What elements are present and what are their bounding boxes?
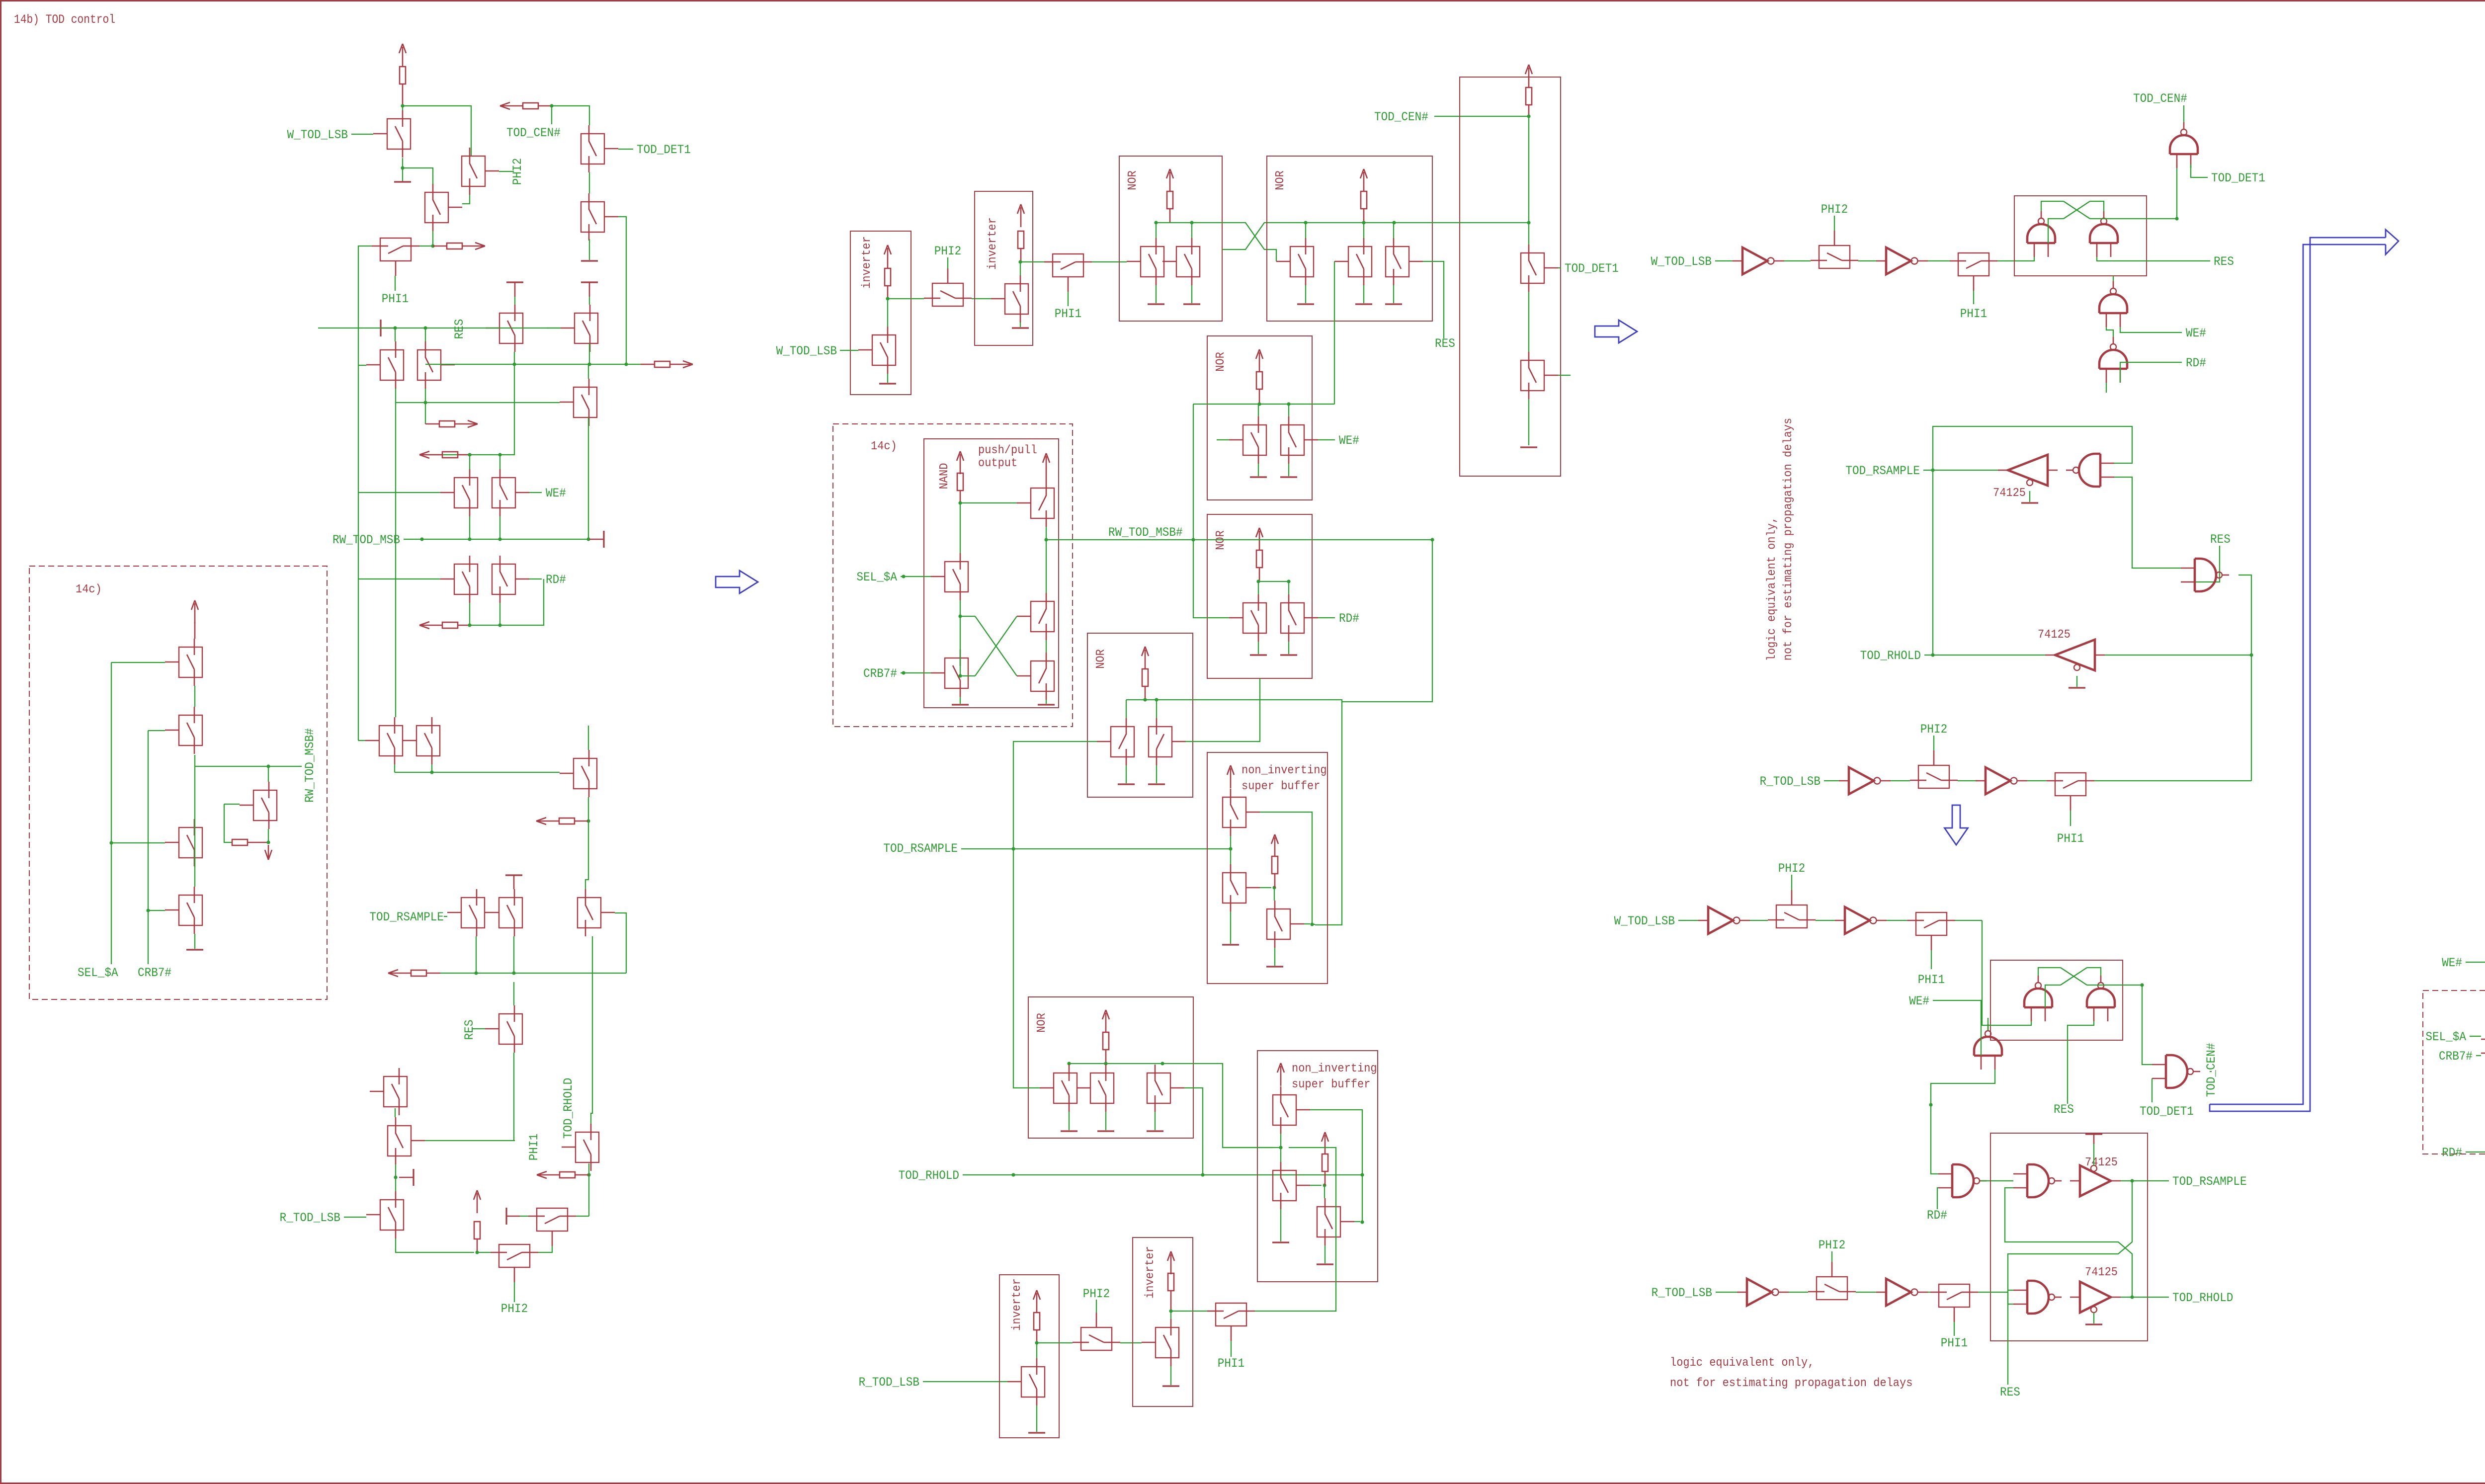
wire bbox=[499, 455, 500, 469]
wire bbox=[1954, 1322, 1955, 1336]
bus y=733 bbox=[425, 364, 641, 365]
long bus bbox=[396, 402, 560, 403]
svg-text:PHI2: PHI2 bbox=[1920, 722, 1947, 737]
ground bbox=[1258, 642, 1259, 654]
ground rotated left bbox=[505, 1208, 507, 1225]
svg-text:RW_TOD_MSB: RW_TOD_MSB bbox=[332, 533, 400, 547]
NAND gate RD# bbox=[1952, 1164, 1974, 1197]
svg-text:inverter: inverter bbox=[1010, 1278, 1024, 1331]
wire bbox=[1858, 260, 1876, 261]
svg-text:WE#: WE# bbox=[546, 486, 566, 500]
wire bbox=[1715, 260, 1733, 261]
wire bbox=[194, 686, 195, 707]
wire bbox=[960, 491, 961, 503]
transistor Q29 bbox=[179, 647, 202, 677]
wire Q16 gate bbox=[358, 579, 359, 741]
wire bbox=[1558, 375, 1571, 376]
resistor bbox=[1103, 1032, 1109, 1050]
wire bbox=[972, 298, 991, 299]
wire SEL bus bbox=[111, 662, 112, 964]
wire bbox=[1274, 874, 1276, 888]
svg-text:PHI2: PHI2 bbox=[510, 158, 525, 185]
buffer 74125 #2 bbox=[2055, 640, 2095, 670]
wire Q14 gate bbox=[358, 493, 440, 579]
power arrow bbox=[1259, 352, 1260, 372]
off-page arrow bbox=[419, 622, 429, 625]
wire bbox=[1069, 1064, 1070, 1065]
wire bbox=[1931, 1070, 1995, 1174]
wire bbox=[513, 982, 514, 1005]
ground bbox=[1155, 1112, 1156, 1130]
power arrow pushpull bbox=[1046, 456, 1047, 476]
blue arrow panel1 to panel2 bbox=[716, 571, 758, 593]
node bbox=[1323, 1183, 1326, 1187]
down arrow off-page bbox=[268, 845, 269, 860]
wire bbox=[1789, 1292, 1808, 1293]
transistor Q71 R_TOD_LSB bbox=[1021, 1367, 1045, 1397]
wire bbox=[1184, 1088, 1203, 1175]
wire RD# bbox=[2120, 362, 2182, 383]
wire bbox=[2121, 1297, 2169, 1298]
wire bbox=[947, 257, 948, 268]
latch box read bbox=[1990, 1133, 2148, 1341]
off-page arrow bbox=[536, 818, 546, 821]
node bbox=[423, 401, 427, 404]
svg-text:R_TOD_LSB: R_TOD_LSB bbox=[1760, 774, 1821, 789]
transistor Q44 bbox=[1141, 247, 1164, 277]
transistor Q68 bbox=[1273, 1095, 1296, 1125]
wire bbox=[1304, 923, 1310, 924]
power arrow bbox=[477, 1193, 478, 1213]
wire cross bbox=[960, 616, 975, 617]
transistor Q70 bbox=[1317, 1207, 1340, 1237]
transistor Q17 bbox=[416, 726, 440, 756]
wire bbox=[395, 276, 396, 291]
node bbox=[2175, 217, 2178, 220]
node bbox=[2130, 1179, 2134, 1182]
buffer 74125 #1 bbox=[2008, 455, 2048, 486]
inverter block 1 bbox=[850, 231, 911, 395]
wire bbox=[2087, 968, 2101, 976]
svg-text:PHI1: PHI1 bbox=[1055, 307, 1081, 321]
wire bbox=[923, 1381, 1007, 1382]
wire diag bbox=[2061, 968, 2087, 985]
wire bbox=[1258, 581, 1259, 594]
wire to TOD_CEN# gate bbox=[2176, 164, 2177, 219]
node bbox=[1527, 221, 1530, 224]
svg-text:TOD_DET1: TOD_DET1 bbox=[2140, 1104, 2194, 1119]
resistor bbox=[474, 1222, 480, 1239]
node J2 bbox=[401, 166, 404, 169]
wire CRB bus bbox=[148, 731, 149, 964]
wire WE# bbox=[2120, 327, 2182, 332]
ground bbox=[402, 168, 403, 182]
inverter U7 bbox=[1747, 1279, 1772, 1306]
NOR block 4 bbox=[1207, 336, 1312, 500]
wire bbox=[396, 1238, 474, 1252]
inverter U1 bbox=[1742, 247, 1767, 274]
wire bbox=[1069, 1064, 1070, 1065]
ground bbox=[2093, 1313, 2094, 1323]
resistor bbox=[1526, 87, 1532, 105]
transistor Q1 bbox=[387, 119, 411, 149]
wire bbox=[419, 246, 433, 247]
dashed box 14c bbox=[833, 424, 1073, 727]
transistor Q32 bbox=[179, 827, 202, 858]
svg-text:logic equivalent only,: logic equivalent only, bbox=[1670, 1356, 1814, 1370]
wire bbox=[1305, 223, 1306, 238]
svg-text:WE#: WE# bbox=[1339, 433, 1359, 448]
wire bbox=[1288, 404, 1289, 416]
power arrow NAND bbox=[960, 454, 961, 474]
wire bbox=[588, 726, 589, 750]
node bbox=[1287, 402, 1290, 406]
svg-text:74125: 74125 bbox=[1993, 487, 2026, 500]
wire bbox=[1274, 888, 1275, 901]
power arrow bbox=[1363, 172, 1365, 192]
blue arrow panel2 to panel3 bbox=[1595, 320, 1637, 343]
node bbox=[468, 537, 471, 541]
node bbox=[1527, 114, 1530, 118]
NAND dome 1 bbox=[2024, 989, 2052, 1007]
wire bbox=[618, 149, 633, 150]
wire bbox=[1259, 568, 1260, 581]
ground bbox=[1036, 1405, 1037, 1432]
transistor Q7 RES bbox=[499, 313, 523, 343]
wire bbox=[588, 1163, 589, 1175]
ground bbox=[1191, 285, 1192, 303]
wire TOD_RHOLD bbox=[591, 947, 592, 1124]
wire bbox=[1558, 267, 1561, 268]
wire bbox=[529, 492, 542, 493]
transistor Q51 bbox=[1243, 425, 1266, 455]
svg-text:RD#: RD# bbox=[2442, 1146, 2462, 1160]
wire bbox=[551, 106, 552, 124]
transistor Q64 bbox=[1267, 909, 1290, 939]
wire bbox=[1171, 1311, 1216, 1312]
super buffer block 2 bbox=[1257, 1051, 1378, 1282]
node bbox=[1201, 1173, 1204, 1176]
wire bbox=[1997, 257, 2034, 261]
NAND gate RES bbox=[2195, 559, 2216, 591]
ground bbox=[2076, 676, 2077, 687]
wire bbox=[1834, 216, 1835, 231]
node bbox=[958, 501, 962, 504]
wire bbox=[1258, 404, 1259, 416]
wire bbox=[1937, 1188, 1938, 1209]
NOR block 6 bbox=[1087, 633, 1193, 797]
transistor pass PHI2 bbox=[1918, 765, 1949, 788]
svg-text:PHI1: PHI1 bbox=[1941, 1336, 1968, 1350]
wire Q8 gate bbox=[547, 328, 561, 329]
bus from NOR2 bbox=[1401, 222, 1529, 223]
node bbox=[468, 453, 471, 456]
ground bbox=[1046, 700, 1047, 704]
node bbox=[430, 770, 433, 774]
transistor Q3 bbox=[425, 192, 448, 223]
node J3 bbox=[431, 244, 434, 247]
wire bbox=[1191, 223, 1192, 238]
svg-text:74125: 74125 bbox=[2085, 1156, 2118, 1169]
wire bbox=[318, 328, 561, 329]
ground rotated bbox=[506, 281, 523, 283]
node bbox=[1257, 402, 1261, 406]
wire bbox=[403, 168, 433, 184]
wire bbox=[1096, 1300, 1097, 1313]
wire bbox=[588, 1175, 589, 1216]
svg-text:TOD_DET1: TOD_DET1 bbox=[1565, 261, 1619, 276]
svg-text:WE#: WE# bbox=[2186, 326, 2206, 340]
NAND gate bbox=[2079, 454, 2100, 487]
resistor R1 bbox=[400, 67, 406, 84]
wire bbox=[1716, 1292, 1737, 1293]
wire bbox=[1013, 742, 1097, 849]
node bbox=[1143, 698, 1147, 701]
ground rotated top bbox=[505, 874, 522, 876]
wire bbox=[268, 766, 302, 767]
wire bbox=[592, 936, 593, 947]
transistor Q47 bbox=[1348, 247, 1372, 277]
wire bbox=[1260, 887, 1271, 888]
node bbox=[902, 671, 905, 674]
wire SB1 out bbox=[1312, 924, 1315, 925]
svg-text:W_TOD_LSB: W_TOD_LSB bbox=[287, 128, 348, 142]
transistor Q11 bbox=[574, 387, 597, 417]
node bbox=[2130, 1295, 2134, 1299]
transistor Q61 bbox=[1149, 727, 1172, 757]
node bbox=[468, 623, 471, 627]
transistor Q15 RD# bbox=[492, 564, 515, 594]
node bbox=[586, 537, 590, 541]
wire bbox=[1528, 292, 1529, 352]
node bbox=[393, 326, 397, 330]
wire bbox=[960, 502, 1017, 503]
wire bbox=[419, 364, 514, 455]
wire bbox=[224, 804, 232, 842]
node bbox=[1044, 538, 1048, 541]
wire Q9 gate bbox=[358, 365, 366, 366]
ground rotated left bbox=[380, 320, 381, 336]
NAND gate TOD_CEN# bbox=[2170, 135, 2198, 154]
latch box bbox=[2014, 196, 2147, 276]
resistor bbox=[1167, 191, 1173, 209]
wire bbox=[1933, 736, 1934, 750]
wire Q21 gate bbox=[615, 913, 626, 973]
wire bbox=[2094, 780, 2251, 781]
resistor bbox=[1142, 669, 1148, 686]
wire bbox=[1887, 920, 1907, 921]
wire bbox=[1363, 223, 1364, 238]
svg-text:RD#: RD# bbox=[546, 573, 566, 587]
wire bbox=[1791, 875, 1792, 890]
node bbox=[1360, 1220, 1364, 1224]
NAND gate WE# bbox=[2099, 294, 2127, 313]
inverter U4 bbox=[1986, 767, 2010, 794]
transistor Q26 PHI2 bbox=[499, 1244, 530, 1267]
ground bbox=[1258, 464, 1259, 476]
wire RES bbox=[2097, 257, 2210, 261]
bus bbox=[1223, 1147, 1281, 1148]
svg-text:74125: 74125 bbox=[2038, 628, 2071, 642]
wire bbox=[2038, 968, 2061, 976]
wire bbox=[1170, 1311, 1171, 1319]
wire TOD_DET1 bbox=[2191, 164, 2208, 177]
wire bbox=[1068, 292, 1069, 306]
transistor Q52 WE# bbox=[1281, 425, 1304, 455]
transistor Q50 bbox=[1521, 360, 1544, 391]
resistor bbox=[1361, 191, 1367, 209]
svg-text:PHI1: PHI1 bbox=[527, 1134, 541, 1160]
bus bbox=[1306, 222, 1401, 223]
ground rotated bbox=[581, 281, 598, 283]
wire bbox=[589, 172, 590, 193]
wire bbox=[960, 650, 961, 676]
NOR block 2 bbox=[1267, 156, 1432, 321]
node bbox=[1011, 1173, 1015, 1176]
buffer 74125 #3 bbox=[2080, 1165, 2111, 1196]
wire bbox=[1393, 223, 1394, 238]
node bbox=[109, 841, 113, 844]
transistor pass PHI2 bbox=[1819, 246, 1850, 268]
transistor Q16 bbox=[379, 726, 403, 756]
wire NOR7 out bbox=[1162, 1064, 1273, 1148]
wire bbox=[1170, 1291, 1172, 1311]
NAND gate dome 1 bbox=[2027, 224, 2055, 243]
wire bbox=[588, 364, 589, 379]
wire bbox=[1824, 780, 1839, 781]
NOR block 5 bbox=[1207, 514, 1312, 678]
wire crossing bbox=[1222, 223, 1276, 261]
svg-text:TOD_CEN#: TOD_CEN# bbox=[506, 126, 561, 140]
svg-text:output: output bbox=[978, 457, 1017, 470]
transistor pass PHI2 bbox=[1776, 905, 1807, 928]
wire bbox=[2041, 201, 2064, 211]
wire bbox=[1046, 540, 1047, 593]
solid box bbox=[924, 439, 1059, 708]
svg-text:RD#: RD# bbox=[2186, 356, 2206, 370]
node bbox=[1154, 221, 1158, 224]
wire bbox=[960, 600, 961, 650]
wire Q31 gate bbox=[224, 804, 240, 805]
wire SB2 out bbox=[1362, 1175, 1363, 1222]
svg-text:R_TOD_LSB: R_TOD_LSB bbox=[859, 1375, 919, 1390]
wire bbox=[1046, 640, 1047, 653]
ground bbox=[1305, 285, 1306, 303]
wire bbox=[403, 106, 471, 156]
resistor bbox=[1322, 1154, 1328, 1171]
transistor Q25 R_TOD_LSB bbox=[380, 1200, 404, 1230]
ground bbox=[1105, 1112, 1106, 1130]
bus TOD_RSAMPLE bbox=[961, 848, 1231, 849]
svg-text:NAND: NAND bbox=[938, 463, 951, 490]
wire bbox=[1046, 476, 1047, 480]
inverter block 2 bbox=[975, 191, 1033, 345]
wire bbox=[887, 299, 888, 327]
node bbox=[2249, 653, 2253, 657]
transistor Q65 bbox=[1054, 1073, 1077, 1103]
node bbox=[1310, 922, 1314, 926]
wire bbox=[513, 936, 514, 973]
resistor bbox=[1256, 372, 1262, 389]
inverter U3 bbox=[1849, 767, 1874, 794]
wire bbox=[1856, 1292, 1876, 1293]
node bbox=[474, 971, 478, 975]
wire bbox=[2090, 218, 2177, 219]
ground bbox=[1230, 911, 1231, 944]
wire bbox=[1037, 1342, 1073, 1343]
wire CRB bus bbox=[148, 730, 165, 731]
node bbox=[1929, 1103, 1932, 1106]
svg-text:PHI1: PHI1 bbox=[1960, 307, 1987, 321]
svg-text:inverter: inverter bbox=[986, 217, 999, 270]
transistor Q20 bbox=[499, 898, 522, 928]
node bbox=[1067, 1062, 1071, 1065]
wire bbox=[1217, 439, 1229, 440]
svg-text:not for estimating propagation: not for estimating propagation delays bbox=[1782, 418, 1795, 660]
wire bbox=[1678, 920, 1698, 921]
svg-text:74125: 74125 bbox=[2085, 1266, 2118, 1279]
power arrow bbox=[1230, 768, 1232, 788]
wire bbox=[887, 286, 889, 299]
transistor Q53 bbox=[1243, 603, 1266, 633]
wire bbox=[520, 1216, 528, 1217]
wire bbox=[514, 1282, 515, 1302]
transistor Q72 PHI2 bbox=[1081, 1327, 1112, 1350]
wire NOR6 out bbox=[1164, 700, 1342, 925]
inverter U6 bbox=[1845, 907, 1870, 934]
svg-text:TOD_RSAMPLE: TOD_RSAMPLE bbox=[883, 841, 958, 856]
wire bbox=[2093, 1144, 2094, 1165]
wire bbox=[576, 1216, 589, 1217]
power arrow VCC1 bbox=[402, 47, 404, 67]
wire bbox=[2048, 219, 2064, 243]
wire bbox=[1069, 1064, 1070, 1065]
inverter block 4 bbox=[1133, 1237, 1193, 1406]
svg-text:inverter: inverter bbox=[1144, 1246, 1157, 1299]
wire bbox=[2181, 546, 2220, 582]
wire entry bbox=[1982, 920, 2031, 1025]
svg-text:PHI2: PHI2 bbox=[501, 1302, 528, 1316]
wire bbox=[1528, 105, 1530, 116]
transistor Q69 bbox=[1273, 1170, 1296, 1201]
node bbox=[498, 453, 501, 456]
wire bbox=[2210, 1071, 2212, 1072]
node bbox=[1035, 1341, 1038, 1344]
svg-text:RD#: RD# bbox=[1339, 611, 1359, 626]
node bbox=[512, 362, 516, 366]
wire bbox=[1318, 617, 1335, 618]
bus TOD_RHOLD bbox=[963, 1174, 1362, 1175]
node bbox=[1362, 221, 1365, 224]
wire bbox=[499, 171, 514, 172]
NAND gate WE# bbox=[1974, 1037, 2002, 1056]
svg-text:R_TOD_LSB: R_TOD_LSB bbox=[1652, 1286, 1712, 1300]
wire bbox=[1978, 1292, 2013, 1304]
bus y813 bbox=[1193, 404, 1334, 405]
node bbox=[1392, 221, 1396, 224]
svg-text:SEL_$A: SEL_$A bbox=[78, 966, 118, 980]
wire bbox=[2090, 201, 2104, 211]
wire bbox=[402, 106, 403, 110]
transistor Q74 PHI1 bbox=[1216, 1303, 1246, 1326]
node bbox=[1190, 221, 1193, 224]
ground bbox=[1528, 399, 1529, 445]
transistor Q67 bbox=[1147, 1073, 1170, 1103]
wire diag bbox=[975, 616, 1017, 676]
ground bbox=[1170, 1366, 1171, 1385]
transistor Q27 bbox=[537, 1208, 568, 1231]
resistor bbox=[1034, 1313, 1040, 1330]
